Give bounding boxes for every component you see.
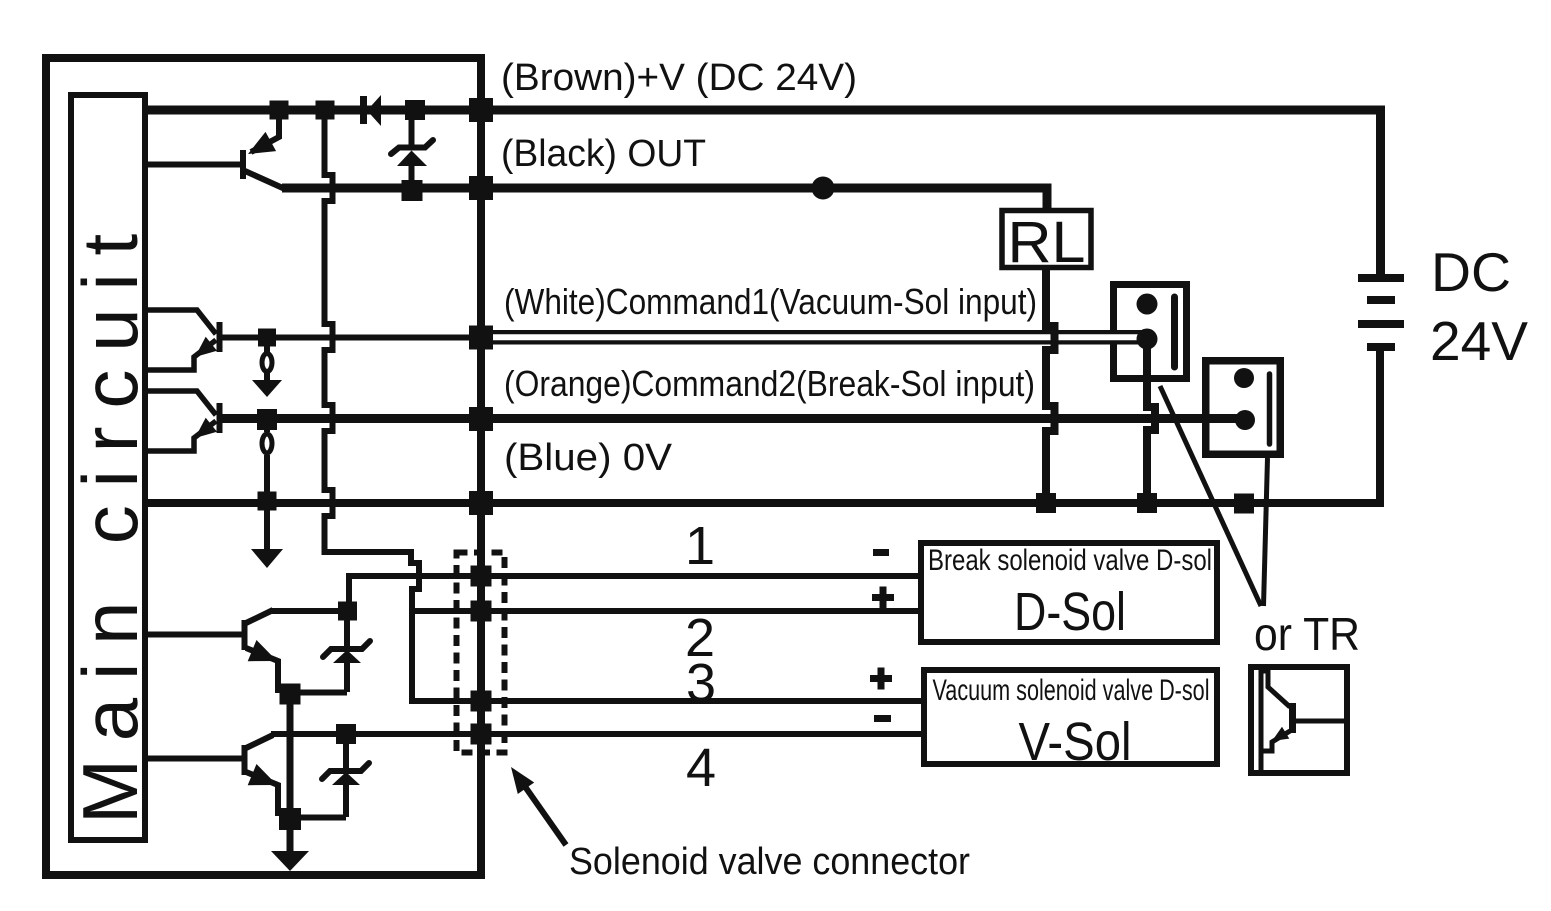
svg-text:(Orange)Command2(Break-Sol inp: (Orange)Command2(Break-Sol input) [504, 363, 1035, 404]
CRD lead [264, 373, 270, 381]
connector plug 2 lower pin dot [1235, 410, 1255, 430]
border node 0V [469, 491, 493, 515]
svg-text:3: 3 [686, 653, 716, 713]
svg-text:(Brown)+V (DC 24V): (Brown)+V (DC 24V) [501, 57, 857, 99]
RL box [1002, 211, 1091, 268]
connector plug 2 blade [1267, 374, 1273, 444]
wire pin2 from bus [412, 608, 921, 614]
Main circuit inner box [71, 95, 145, 840]
border node +V [469, 98, 493, 122]
svg-text:1: 1 [685, 516, 715, 576]
zener Z4 lead [343, 738, 349, 772]
CRD lead from Command1 node [264, 337, 270, 352]
svg-text:or TR: or TR [1254, 608, 1360, 660]
V-Sol box [924, 670, 1217, 764]
zener Z3 triangle [333, 650, 361, 663]
svg-text:Break solenoid valve D-sol: Break solenoid valve D-sol [928, 544, 1212, 577]
border node Command2 [469, 407, 493, 431]
connector plug 1 wire to 0V with jog [1147, 339, 1155, 503]
bus wire from +V node with crossover jogs [325, 110, 922, 701]
node Q4 collector / zener Z4 [336, 724, 356, 744]
zener Z4 lead to emitter wire [343, 783, 349, 817]
node 0V / plug 1 branch [1137, 493, 1157, 513]
wire Q3 collector to zener node [271, 608, 350, 614]
transistor QA base bar [217, 322, 223, 352]
transistor Q1 collector to OUT [245, 171, 285, 189]
node OUT / zener Z1 [402, 180, 423, 201]
solenoid valve connector dashed box [457, 553, 505, 753]
node Command2 / CRD [257, 409, 277, 430]
pointer line from plug 1 [1160, 386, 1261, 606]
transistor Q4 collector [246, 735, 273, 748]
transistor Q3 emitter [246, 648, 288, 690]
transistor QA collector wire [145, 310, 216, 334]
CRD lead to 0V node [264, 455, 270, 503]
node +V / zener Z1 [405, 100, 425, 120]
zener Z1 lead to OUT node [409, 164, 415, 185]
battery plate short 2 [1367, 343, 1395, 351]
zener Z4 triangle [332, 772, 360, 785]
CRD lead from Command2 node [264, 419, 270, 432]
transistor Q1 emitter from +V node [251, 115, 279, 152]
node +V / bus [316, 101, 335, 120]
D-Sol box [921, 543, 1217, 642]
TR base lead [1292, 719, 1344, 724]
wire pin4 from Q4 collector [271, 731, 921, 737]
diode D1 triangle [367, 95, 381, 126]
transistor Q4 base wire [145, 756, 242, 762]
connector pin 2 [471, 601, 492, 622]
battery plate short 1 [1367, 296, 1395, 304]
RL wire to 0V with crossover jogs [1046, 266, 1055, 503]
wire (White)Command1 double line outside [481, 330, 1150, 345]
connector plug 1 blade [1171, 297, 1178, 367]
wire (Orange)Command2 [221, 414, 1245, 423]
wire Q4 emitter node to zener anode [290, 815, 346, 821]
svg-text:4: 4 [686, 738, 716, 798]
outer circuit box [46, 58, 481, 875]
zener Z4 bar [322, 763, 369, 779]
lead below 0V node [264, 503, 270, 551]
wire (Brown)+V from main circuit to battery [145, 110, 1381, 274]
connector plug 1 lower pin dot [1137, 329, 1158, 350]
label minus wire 1 [873, 549, 889, 556]
pointer line from plug 2 [1264, 458, 1268, 606]
svg-text:V-Sol: V-Sol [1019, 712, 1132, 772]
zener Z3 lead [344, 614, 350, 650]
zener Z3 lead to emitter wire [344, 661, 350, 692]
svg-text:Solenoid valve connector: Solenoid valve connector [569, 841, 970, 883]
label minus wire 4 [874, 715, 891, 722]
connector pin 1 [471, 566, 492, 587]
svg-text:DC: DC [1431, 241, 1511, 303]
svg-text:24V: 24V [1430, 310, 1528, 372]
down arrow below 0V node [251, 549, 283, 568]
transistor QA emitter wire [145, 340, 216, 370]
connector pin 4 [471, 724, 492, 745]
transistor Q1 base wire [145, 162, 240, 168]
connector plug 2 upper pin dot [1234, 368, 1254, 388]
svg-text:(Black) OUT: (Black) OUT [501, 133, 706, 175]
node Q4 emitter [279, 808, 301, 830]
transistor Q1 emitter arrow [248, 132, 276, 154]
node Q3 collector / zener Z3 [338, 602, 357, 621]
transistor QB emitter arrow [195, 418, 217, 438]
junction dot on OUT wire [812, 177, 835, 200]
border node Command1 [469, 326, 493, 350]
svg-text:D-Sol: D-Sol [1014, 582, 1126, 642]
transistor QB base bar [217, 403, 223, 433]
zener Z1 lead from +V node [409, 113, 415, 149]
TR base bar [1289, 703, 1296, 733]
pointer arrow to connector [519, 778, 566, 845]
label plus wire 2 [872, 594, 894, 601]
node 0V / plug 2 [1234, 494, 1254, 514]
CRD D2 oval [262, 434, 272, 453]
connector pin 3 [471, 691, 492, 712]
wire (White)Command1 inside box [221, 335, 481, 341]
transistor Q4 base bar [242, 745, 248, 775]
node 0V / CRD [258, 492, 277, 511]
svg-text:Vacuum solenoid valve D-sol: Vacuum solenoid valve D-sol [933, 674, 1210, 707]
transistor QB collector wire [145, 391, 216, 415]
zener Z1 triangle [397, 151, 427, 167]
node 0V / RL branch [1036, 493, 1056, 513]
transistor Q3 emitter arrow [248, 640, 277, 661]
TR lead line [1259, 668, 1264, 772]
label plus wire 3 [870, 675, 892, 682]
connector plug 2 box [1206, 361, 1281, 455]
border node OUT [469, 176, 493, 200]
wire (Black) OUT [282, 188, 1047, 212]
svg-text:Main circuit: Main circuit [66, 216, 154, 824]
transistor Q4 emitter [246, 772, 288, 813]
current direction arrow [252, 380, 282, 397]
transistor Q3 base wire [145, 632, 242, 638]
transistor QA emitter arrow [195, 337, 217, 357]
connector plug 1 upper pin dot [1137, 294, 1158, 315]
battery plate long 2 [1358, 320, 1404, 328]
zener Z1 bar [391, 140, 433, 154]
TR collector branch [1261, 671, 1290, 707]
ground arrow [271, 851, 309, 871]
wire pin1 from Q3 collector node [349, 576, 921, 614]
transistor Q4 emitter arrow [248, 764, 277, 785]
node Command1 / CRD [258, 329, 276, 347]
transistor Q1 base bar [240, 150, 246, 179]
connector plug 1 box [1114, 285, 1187, 379]
wire Q3 emitter to Q4 emitter [287, 694, 294, 854]
TR emitter arrow [1272, 727, 1289, 741]
transistor Q3 base bar [242, 620, 248, 650]
transistor Q3 collector [246, 610, 273, 623]
svg-text:(Blue) 0V: (Blue) 0V [504, 437, 673, 479]
TR emitter branch [1261, 731, 1290, 751]
diode D1 bar [360, 96, 367, 124]
node +V / Q1 emitter [270, 101, 289, 120]
CRD D1 oval [262, 354, 272, 372]
wire (Blue) 0V to battery [145, 351, 1380, 503]
wire Q3 emitter node to zener anode [290, 690, 347, 696]
svg-text:RL: RL [1008, 210, 1086, 275]
transistor QB emitter wire [145, 421, 216, 451]
TR box [1251, 667, 1347, 773]
zener Z3 bar [323, 641, 370, 657]
svg-text:(White)Command1(Vacuum-Sol inp: (White)Command1(Vacuum-Sol input) [504, 281, 1037, 322]
battery plate long 1 [1358, 274, 1404, 282]
node Q3 emitter [280, 684, 301, 705]
